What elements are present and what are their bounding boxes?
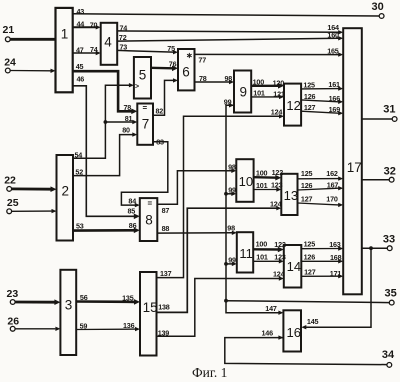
input terminal 26	[7, 316, 60, 332]
block 8	[140, 198, 158, 241]
svg-text:122: 122	[274, 240, 286, 249]
block 2	[57, 155, 74, 241]
wire net 99 riser	[224, 97, 284, 315]
wire 82 block 7 to block 6	[153, 78, 178, 115]
wire 127 block 14 to block 17 pin 171	[301, 267, 343, 278]
wire 72 to block 17 pin 160	[117, 31, 343, 42]
svg-text:3: 3	[65, 298, 73, 313]
branch to block 16 pin 145	[301, 246, 373, 329]
input terminal 23	[7, 288, 61, 305]
wire 47 to block 4 pin 74	[73, 45, 101, 55]
svg-text:73: 73	[120, 43, 128, 52]
svg-text:125: 125	[304, 240, 316, 249]
svg-text:122: 122	[272, 168, 284, 177]
svg-text:30: 30	[372, 1, 384, 13]
svg-text:123: 123	[274, 252, 286, 261]
svg-text:100: 100	[256, 168, 268, 177]
svg-text:123: 123	[271, 180, 283, 189]
wire 125 block 14 to block 17 pin 163	[301, 240, 343, 251]
wire 45 to block 7 pin 78	[73, 62, 138, 114]
svg-text:16: 16	[287, 325, 301, 340]
svg-text:70: 70	[90, 20, 98, 29]
svg-text:120: 120	[273, 79, 285, 88]
svg-text:165: 165	[327, 47, 339, 56]
svg-text:33: 33	[383, 234, 395, 246]
svg-text:2: 2	[62, 184, 70, 199]
svg-text:31: 31	[383, 103, 395, 115]
block 10	[236, 159, 253, 202]
wire 126 block 14 to block 17 pin 168	[301, 252, 343, 263]
svg-text:46: 46	[77, 75, 85, 84]
svg-text:127: 127	[304, 267, 316, 276]
svg-text:=: =	[143, 104, 148, 113]
svg-text:22: 22	[4, 175, 16, 187]
svg-text:99: 99	[228, 255, 236, 264]
wire 78 block 6 to block 9 pin 98	[195, 74, 235, 84]
svg-text:166: 166	[329, 94, 341, 103]
svg-text:147: 147	[265, 304, 277, 313]
svg-text:86: 86	[129, 221, 137, 230]
wire 126 block 13 to block 17 pin 167	[298, 181, 344, 191]
input terminal 22	[4, 175, 56, 193]
block 11	[237, 232, 253, 272]
junction to block 10 pin 99	[224, 186, 236, 197]
svg-text:124: 124	[273, 269, 285, 278]
wire 137 to block 12 pin 124	[157, 107, 285, 278]
svg-text:126: 126	[301, 181, 313, 190]
wire 100 block 9 to block 12	[251, 77, 284, 88]
block 17	[343, 28, 362, 294]
svg-text:139: 139	[158, 328, 170, 337]
svg-text:17: 17	[347, 160, 362, 175]
svg-text:80: 80	[122, 126, 130, 135]
mark * in block 6	[186, 51, 193, 60]
junction to block 11 pin 99	[224, 255, 237, 266]
svg-text:161: 161	[328, 80, 340, 89]
svg-text:>: >	[135, 84, 139, 91]
svg-text:76: 76	[169, 59, 177, 68]
svg-text:15: 15	[143, 300, 158, 315]
trigger mark in block 5	[135, 84, 139, 91]
block 9	[234, 71, 251, 113]
wire 43 to terminal 30	[73, 7, 380, 16]
svg-text:53: 53	[76, 222, 84, 231]
wire to output terminal 33	[362, 247, 388, 249]
svg-text:136: 136	[123, 321, 135, 330]
svg-text:101: 101	[256, 252, 268, 261]
block 1	[56, 8, 73, 92]
svg-text:167: 167	[327, 181, 339, 190]
svg-text:32: 32	[384, 166, 396, 178]
svg-text:75: 75	[167, 44, 175, 53]
svg-text:4: 4	[104, 35, 112, 50]
output terminal 35	[385, 288, 397, 306]
caption	[192, 365, 227, 380]
svg-text:54: 54	[75, 150, 83, 159]
wire 101 block 9 to block 12	[251, 89, 285, 100]
block 13	[281, 174, 298, 215]
svg-text:9: 9	[240, 85, 248, 100]
wire 83 block 7 to block 8 pin 84	[121, 138, 167, 208]
svg-text:87: 87	[162, 206, 170, 215]
output terminal 31	[383, 103, 397, 121]
wire to output terminal 31	[362, 118, 393, 120]
wire 100 block 10 to block 13	[254, 168, 284, 181]
wire 52 to block 7 pin 80	[73, 126, 137, 177]
block 6	[178, 49, 195, 90]
svg-text:169: 169	[329, 105, 341, 114]
svg-text:59: 59	[80, 321, 88, 330]
wire 77 to block 17 pin 165	[195, 47, 344, 65]
block 15	[140, 272, 158, 356]
output terminal 34	[382, 349, 395, 367]
wire 53 to block 8 pin 86	[73, 221, 140, 233]
wire 146 and output terminal 34	[225, 329, 387, 365]
block 16	[283, 310, 301, 351]
svg-text:14: 14	[287, 259, 301, 274]
wire 88 block 8 to block 11 pin 98	[157, 224, 237, 235]
svg-text:125: 125	[301, 169, 313, 178]
svg-text:∗: ∗	[186, 51, 193, 60]
wire 101 block 10 to block 13	[254, 180, 283, 191]
wire 87 block 8 to block 10 pin 98	[157, 163, 236, 215]
svg-text:35: 35	[385, 288, 397, 300]
svg-text:56: 56	[80, 293, 88, 302]
svg-text:168: 168	[330, 253, 342, 262]
svg-text:99: 99	[228, 186, 236, 195]
svg-text:160: 160	[327, 31, 339, 40]
wire 73 to block 6 pin 75	[117, 43, 178, 55]
svg-text:21: 21	[3, 24, 15, 36]
wire 139 to block 14 pin 124	[157, 269, 285, 337]
svg-text:171: 171	[330, 269, 342, 278]
svg-text:98: 98	[225, 74, 233, 83]
svg-text:124: 124	[270, 199, 282, 208]
svg-text:135: 135	[122, 294, 134, 303]
svg-text:23: 23	[7, 288, 19, 300]
svg-text:13: 13	[284, 188, 298, 203]
svg-text:47: 47	[76, 46, 84, 55]
svg-text:138: 138	[158, 302, 170, 311]
svg-text:85: 85	[128, 207, 136, 216]
svg-text:74: 74	[90, 45, 98, 54]
svg-text:127: 127	[304, 103, 316, 112]
svg-text:77: 77	[198, 55, 206, 64]
wire to output terminal 32	[362, 179, 390, 181]
svg-text:8: 8	[145, 213, 153, 228]
svg-text:121: 121	[273, 90, 285, 99]
wire 125 block 13 to block 17 pin 162	[298, 169, 344, 181]
svg-text:78: 78	[124, 103, 132, 112]
svg-text:52: 52	[75, 167, 83, 176]
wire 46 to block 8 pin 85	[73, 75, 140, 220]
svg-text:83: 83	[156, 138, 164, 147]
svg-text:84: 84	[128, 196, 136, 205]
svg-text:170: 170	[326, 194, 338, 203]
svg-text:6: 6	[182, 65, 190, 80]
block 12	[284, 84, 301, 126]
svg-text:124: 124	[271, 107, 283, 116]
junction wire to terminal 35	[224, 299, 389, 303]
input terminal 24	[4, 57, 55, 74]
wire 127 block 12 to block 17 pin 169	[301, 103, 343, 115]
block 3	[60, 270, 76, 355]
svg-text:99: 99	[224, 97, 232, 106]
mark = in block 8	[148, 199, 153, 208]
svg-text:125: 125	[303, 81, 315, 90]
svg-text:11: 11	[239, 246, 253, 261]
wire 138 to block 13 pin 124	[157, 199, 282, 312]
input terminal 21	[3, 24, 56, 42]
svg-text:78: 78	[199, 74, 207, 83]
wire 59 to block 15 pin 136	[76, 321, 140, 331]
svg-text:98: 98	[228, 163, 236, 172]
svg-text:10: 10	[239, 174, 253, 189]
block 7	[137, 104, 153, 145]
svg-text:5: 5	[139, 68, 147, 83]
svg-text:100: 100	[253, 77, 265, 86]
mark = in block 7	[143, 104, 148, 113]
input terminal 25	[7, 197, 57, 214]
wire 56 to block 15 pin 135	[76, 293, 140, 305]
block 5	[134, 57, 151, 99]
svg-text:126: 126	[304, 252, 316, 261]
svg-text:Фиг. 1: Фиг. 1	[192, 365, 227, 380]
svg-text:163: 163	[329, 240, 341, 249]
svg-text:7: 7	[142, 117, 150, 132]
svg-text:1: 1	[61, 27, 69, 42]
wire 126 block 12 to block 17 pin 166	[301, 92, 343, 104]
svg-text:127: 127	[301, 194, 313, 203]
svg-text:12: 12	[286, 98, 300, 113]
svg-text:98: 98	[227, 224, 235, 233]
wire 74 to block 17 pin 164	[117, 23, 343, 35]
svg-text:43: 43	[77, 7, 85, 16]
svg-text:146: 146	[262, 329, 274, 338]
wire 127 block 13 to block 17 pin 170	[298, 194, 344, 207]
svg-text:101: 101	[253, 89, 265, 98]
output terminal 32	[384, 166, 396, 182]
svg-text:137: 137	[160, 269, 172, 278]
svg-text:82: 82	[156, 107, 164, 116]
output terminal 33	[383, 234, 395, 251]
wire 44 to block 4 pin 70	[73, 19, 101, 29]
svg-text:72: 72	[119, 33, 127, 42]
block 4	[101, 23, 118, 65]
svg-text:74: 74	[120, 23, 128, 32]
svg-text:126: 126	[304, 92, 316, 101]
svg-text:44: 44	[77, 19, 85, 28]
block 14	[284, 245, 302, 288]
svg-text:81: 81	[125, 114, 133, 123]
svg-text:24: 24	[4, 57, 16, 69]
svg-text:162: 162	[326, 169, 338, 178]
wire 76 block 5 to block 6	[151, 59, 178, 71]
wire 54 to block 5 and block 7 pin 81	[73, 83, 137, 159]
wire 125 block 12 to block 17 pin 161	[301, 80, 343, 91]
wire 101 block 11 to block 14	[253, 252, 286, 263]
svg-text:=: =	[148, 199, 153, 208]
wire 100 block 11 to block 14	[253, 239, 286, 252]
svg-text:34: 34	[382, 349, 395, 361]
svg-text:145: 145	[307, 317, 319, 326]
svg-text:45: 45	[76, 62, 84, 71]
svg-text:26: 26	[7, 316, 19, 328]
svg-text:25: 25	[7, 197, 19, 209]
output terminal 30	[372, 1, 385, 18]
svg-text:100: 100	[256, 239, 268, 248]
svg-text:88: 88	[162, 224, 170, 233]
svg-text:101: 101	[256, 181, 268, 190]
